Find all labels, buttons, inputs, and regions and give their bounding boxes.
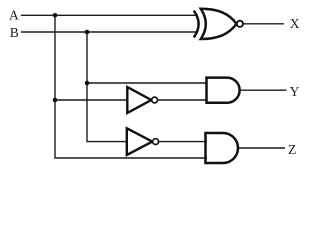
wire inverter U1 output to AND gate Y bottom input <box>158 99 208 101</box>
AND gate U4 (output Y) <box>207 78 240 103</box>
junction dot on wire B <box>85 30 90 35</box>
wire from node A branch to inverter U1 input <box>55 99 128 101</box>
XNOR gate U3 output bubble <box>237 21 243 27</box>
svg-text:Y: Y <box>290 84 300 99</box>
AND gate U5 (output Z) <box>206 133 239 163</box>
wire AND Z output to Z <box>238 147 285 149</box>
wire XNOR output to X <box>243 23 284 25</box>
junction dot on wire A <box>53 13 58 18</box>
junction dot B branch <box>85 81 90 86</box>
svg-text:A: A <box>9 7 19 22</box>
wire AND Y output to Y <box>240 89 287 91</box>
XNOR gate U3 body <box>201 9 237 39</box>
svg-text:B: B <box>10 25 19 40</box>
inverter U2 bubble <box>153 139 159 145</box>
inverter U2 triangle <box>127 128 153 155</box>
wire vertical from A junction down then right to AND gate Z bottom input <box>55 15 207 158</box>
wire A horizontal to XNOR top input <box>21 14 198 16</box>
wire from node B branch to AND gate Y top input <box>87 82 207 84</box>
wire B horizontal to XNOR bottom input <box>21 31 198 33</box>
XNOR gate U3 input arc <box>194 11 199 38</box>
wire vertical from B junction down then right to inverter U2 input <box>87 32 128 142</box>
svg-text:X: X <box>290 16 300 31</box>
junction dot A branch <box>53 98 58 103</box>
wire inverter U2 output to AND gate Z top input <box>159 141 208 143</box>
svg-text:Z: Z <box>288 142 296 157</box>
inverter U1 bubble <box>152 97 158 103</box>
inverter U1 triangle <box>127 87 151 113</box>
